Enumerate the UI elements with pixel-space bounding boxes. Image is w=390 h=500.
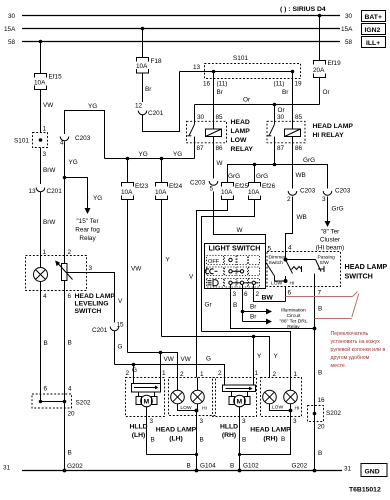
- svg-text:Переключатель: Переключатель: [331, 331, 369, 337]
- wire Br light switch pin6: [241, 289, 272, 325]
- wire C203-4 riser YG: [65, 103, 105, 159]
- wire WB C203-2 to head lamp switch pin4: [286, 197, 307, 244]
- svg-text:G: G: [132, 367, 137, 374]
- svg-text:(RH): (RH): [263, 436, 277, 443]
- wire VW Ef15 to S101 splice: [41, 90, 55, 133]
- svg-text:13: 13: [29, 188, 37, 195]
- svg-text:B: B: [200, 437, 204, 444]
- svg-text:G: G: [118, 344, 123, 351]
- svg-text:30: 30: [277, 114, 285, 121]
- svg-text:Or: Or: [243, 97, 251, 104]
- lamp RH low beam: [263, 390, 284, 410]
- svg-text:T6B15012: T6B15012: [349, 487, 381, 494]
- label diagram number T6B15012: [349, 487, 381, 494]
- svg-text:(11): (11): [217, 81, 228, 88]
- svg-text:( ) : SIRIUS D4: ( ) : SIRIUS D4: [280, 6, 326, 13]
- svg-text:HEAD LAMP: HEAD LAMP: [75, 293, 116, 300]
- svg-text:LIGHT SWITCH: LIGHT SWITCH: [209, 244, 261, 253]
- svg-text:B: B: [230, 463, 234, 470]
- red wire note line upper: [286, 292, 358, 297]
- wire BW light switch pin2 to head lamp switch pin6: [254, 289, 286, 302]
- svg-text:S202: S202: [326, 410, 341, 417]
- actuator HLLD LH: [132, 384, 161, 393]
- svg-text:другом удобном: другом удобном: [331, 355, 370, 361]
- wire B HLLD LH pin3: [147, 407, 199, 456]
- wire W C203-5 to head lamp switch pin5: [214, 192, 266, 244]
- svg-text:YG: YG: [139, 151, 148, 158]
- wire Br S101-19 to hi relay 85: [274, 72, 303, 117]
- svg-text:HEAD: HEAD: [231, 119, 250, 126]
- svg-text:VW: VW: [131, 266, 142, 273]
- svg-text:85: 85: [216, 114, 224, 121]
- svg-text:HLLD: HLLD: [220, 424, 238, 431]
- svg-text:3: 3: [200, 418, 204, 425]
- lamp RH hi beam: [284, 378, 300, 412]
- svg-text:G202: G202: [292, 463, 308, 470]
- node S202 splice right: [308, 397, 342, 431]
- svg-text:19: 19: [295, 81, 303, 88]
- svg-text:10A: 10A: [155, 189, 167, 196]
- svg-text:5: 5: [268, 246, 272, 253]
- node BAT+: [362, 11, 386, 22]
- svg-text:(11): (11): [274, 81, 285, 88]
- svg-text:3: 3: [293, 418, 297, 425]
- red wire note line lower: [315, 318, 352, 320]
- svg-text:Br: Br: [282, 89, 289, 96]
- node S101 splice box: [205, 55, 301, 79]
- wire W inside switch pin5: [266, 244, 286, 282]
- wire BrW to C201-13: [41, 148, 57, 185]
- svg-text:10A: 10A: [34, 80, 46, 87]
- connector C203 pin 2: [287, 188, 316, 204]
- svg-text:2: 2: [68, 249, 72, 256]
- svg-text:16: 16: [318, 397, 326, 404]
- node ILL+: [362, 37, 386, 48]
- svg-text:6: 6: [244, 291, 248, 298]
- svg-text:6: 6: [68, 293, 72, 300]
- lamp leveling illumination: [34, 256, 48, 291]
- junction S101 pin16: [212, 70, 216, 74]
- svg-text:5: 5: [210, 186, 214, 193]
- svg-text:G: G: [206, 356, 211, 363]
- connector C203 pin 3: [322, 188, 351, 204]
- svg-text:Gr: Gr: [205, 302, 213, 309]
- svg-text:M: M: [144, 399, 150, 406]
- svg-text:C203: C203: [335, 188, 351, 195]
- svg-text:"15" Ter: "15" Ter: [76, 218, 99, 225]
- svg-text:20: 20: [318, 424, 326, 431]
- svg-text:B: B: [68, 340, 72, 347]
- svg-text:1: 1: [294, 371, 298, 378]
- svg-text:Passing: Passing: [318, 255, 336, 261]
- svg-text:HEAD LAMP: HEAD LAMP: [156, 427, 197, 434]
- wire Y Ef24 down: [162, 200, 171, 337]
- ground G104: [187, 463, 217, 473]
- wire Br S101-16 to low relay 85: [203, 72, 227, 117]
- svg-text:B: B: [233, 302, 237, 309]
- svg-text:Or: Or: [278, 107, 286, 114]
- wire GrG C203-3 to cluster: [325, 197, 344, 228]
- wire Y rail to RH lamps: [162, 337, 279, 378]
- junction Y at HLLD RH: [252, 335, 256, 386]
- wire bus 30: [8, 13, 353, 20]
- svg-text:LOW: LOW: [231, 137, 247, 144]
- svg-text:G202: G202: [67, 463, 83, 470]
- svg-text:GND: GND: [365, 469, 380, 476]
- wire BrW C201-13 to leveling switch pin1: [41, 192, 57, 256]
- HLLD LH assembly box: [126, 378, 165, 417]
- svg-text:Br: Br: [250, 314, 257, 321]
- wire Or Ef19 down: [320, 78, 331, 105]
- fuse F18 10A: [136, 58, 162, 74]
- svg-text:GrG: GrG: [332, 206, 344, 213]
- svg-text:Br: Br: [217, 89, 224, 96]
- svg-text:C201: C201: [92, 327, 108, 334]
- svg-text:W: W: [217, 160, 224, 167]
- fuse Ef15 10A: [34, 74, 62, 90]
- fuse Ef26 10A: [248, 183, 276, 200]
- wire V Ef25 to LH hi beam: [189, 200, 228, 378]
- svg-text:58: 58: [8, 39, 16, 46]
- svg-text:6: 6: [288, 290, 292, 297]
- svg-text:31: 31: [344, 466, 352, 473]
- svg-text:BrW: BrW: [43, 167, 56, 174]
- svg-text:HI: HI: [295, 406, 300, 412]
- label head lamp LH: [156, 427, 197, 443]
- connector C201 pin 12: [135, 103, 164, 118]
- svg-text:B: B: [68, 450, 72, 457]
- svg-text:2: 2: [218, 370, 222, 377]
- svg-text:C203: C203: [300, 188, 316, 195]
- svg-text:1: 1: [162, 370, 166, 377]
- ground G202 left: [63, 463, 83, 472]
- light switch pin stubs: [231, 285, 260, 299]
- svg-text:Cluster: Cluster: [320, 237, 341, 244]
- svg-text:12: 12: [135, 103, 143, 110]
- HEAD LAMP LH assembly box: [169, 371, 216, 416]
- svg-text:10A: 10A: [221, 189, 233, 196]
- svg-text:87: 87: [197, 145, 205, 152]
- svg-text:S/W: S/W: [320, 260, 330, 266]
- svg-text:Y: Y: [257, 353, 262, 360]
- svg-text:GrG: GrG: [256, 173, 268, 180]
- label HLLD LH: [129, 424, 147, 440]
- svg-text:HI: HI: [290, 281, 295, 287]
- svg-text:3: 3: [233, 291, 237, 298]
- svg-text:S202: S202: [76, 400, 91, 407]
- label 15 ter rear fog relay: [75, 218, 100, 242]
- svg-text:6: 6: [44, 386, 48, 393]
- svg-text:YG: YG: [93, 195, 102, 202]
- svg-text:LOW: LOW: [271, 281, 283, 287]
- wire 15A to F18: [142, 29, 144, 58]
- node GND box: [361, 464, 387, 477]
- svg-text:Br: Br: [145, 86, 152, 93]
- svg-text:C203: C203: [75, 135, 91, 142]
- svg-text:C201: C201: [47, 188, 63, 195]
- svg-text:13: 13: [193, 64, 201, 71]
- svg-text:B: B: [151, 437, 155, 444]
- wire GrG rail: [228, 157, 328, 189]
- fuse Ef24 10A: [155, 183, 183, 200]
- connector C201 pin 13: [29, 188, 63, 196]
- wire W low relay 86 to C203-5: [214, 149, 224, 179]
- red note text russian: [331, 331, 386, 369]
- label head lamp RH: [250, 427, 291, 443]
- svg-text:10A: 10A: [248, 189, 260, 196]
- label head lamp switch: [345, 262, 388, 281]
- relay K1 head lamp low relay: [187, 105, 227, 159]
- wire Or feed to relays: [195, 97, 320, 105]
- svg-text:10A: 10A: [136, 63, 148, 70]
- junction B pin7 with pin3: [313, 327, 317, 331]
- svg-text:31: 31: [3, 465, 11, 472]
- wire B head lamp RH pin3: [238, 404, 297, 456]
- label head lamp leveling switch: [43, 293, 115, 315]
- wire YG rail to low relay 87: [105, 151, 195, 159]
- svg-text:1: 1: [43, 126, 47, 133]
- svg-text:87: 87: [277, 145, 285, 152]
- svg-text:HI RELAY: HI RELAY: [313, 132, 345, 139]
- svg-text:Ef23: Ef23: [135, 183, 149, 190]
- svg-text:HEAD LAMP: HEAD LAMP: [250, 427, 291, 434]
- svg-text:Ef24: Ef24: [169, 183, 183, 190]
- light switch row park: [205, 267, 259, 276]
- svg-text:30: 30: [197, 114, 205, 121]
- svg-text:Y: Y: [166, 257, 171, 264]
- svg-text:86: 86: [295, 145, 303, 152]
- wire bus 15A: [4, 26, 353, 33]
- node SIRIUS D4 note: [280, 6, 326, 13]
- svg-text:15A: 15A: [4, 26, 16, 33]
- svg-text:"86" Ter DRL: "86" Ter DRL: [279, 319, 307, 325]
- fuse Ef25 10A: [221, 183, 249, 200]
- svg-text:YG: YG: [88, 103, 97, 110]
- node S101 splice left: [14, 126, 48, 159]
- wire bus 58: [8, 39, 353, 46]
- svg-text:G104: G104: [200, 463, 216, 470]
- svg-text:2: 2: [180, 371, 184, 378]
- connector C201 pin 15: [92, 322, 124, 335]
- svg-text:LAMP: LAMP: [231, 128, 251, 135]
- svg-text:RELAY: RELAY: [231, 146, 254, 153]
- svg-text:3: 3: [43, 151, 47, 158]
- wire YG C203-4 down to junction: [65, 142, 78, 256]
- junction on 15A bus: [141, 27, 145, 31]
- fuse Ef23 10A: [121, 183, 149, 200]
- lamp LH low beam: [171, 378, 192, 412]
- svg-text:B: B: [187, 463, 191, 470]
- svg-text:LEVELING: LEVELING: [75, 301, 109, 308]
- label head lamp low relay: [231, 119, 254, 153]
- svg-text:C203: C203: [190, 180, 206, 187]
- wire S101 pin13 net: [180, 64, 293, 72]
- label head lamp hi relay: [313, 123, 354, 139]
- svg-text:Circuit: Circuit: [287, 313, 301, 319]
- head lamp switch S3 dimmer passing box: [267, 252, 341, 287]
- svg-text:M: M: [237, 399, 243, 406]
- junction GrG at Ef26: [253, 163, 257, 182]
- svg-text:WB: WB: [297, 214, 307, 221]
- svg-text:GrG: GrG: [303, 157, 315, 164]
- wire B HLLD RH pin3: [240, 407, 247, 471]
- red switch blade: [352, 294, 359, 318]
- svg-text:B: B: [44, 340, 48, 347]
- junction on 30 bus: [318, 14, 322, 18]
- svg-text:Ef25: Ef25: [235, 183, 249, 190]
- svg-text:30: 30: [345, 13, 353, 20]
- wire leveling pin3 V: [67, 265, 123, 323]
- light switch S2 box: [205, 244, 266, 289]
- svg-text:установить на кожух: установить на кожух: [331, 339, 381, 345]
- svg-text:1: 1: [43, 249, 47, 256]
- wire head lamp switch pin6: [286, 287, 292, 302]
- passing switch contact: [286, 260, 325, 287]
- svg-text:Relay: Relay: [79, 235, 96, 242]
- junction YG at Ef24: [160, 157, 164, 182]
- svg-text:C201: C201: [148, 110, 164, 117]
- label 8 ter cluster hi beam: [316, 229, 344, 252]
- svg-text:HLLD: HLLD: [129, 424, 147, 431]
- svg-text:3: 3: [322, 196, 326, 203]
- svg-text:3: 3: [89, 265, 93, 272]
- svg-text:BrW: BrW: [43, 219, 56, 226]
- junction YG branch: [63, 176, 67, 180]
- svg-text:20A: 20A: [313, 67, 325, 74]
- wire VW Ef23 down: [128, 200, 143, 353]
- svg-text:1: 1: [200, 371, 204, 378]
- svg-text:VW: VW: [164, 356, 175, 363]
- svg-text:B: B: [318, 370, 322, 377]
- junction GrG at hi relay 87: [273, 163, 277, 167]
- svg-text:4: 4: [68, 386, 72, 393]
- svg-text:HEAD LAMP: HEAD LAMP: [345, 262, 388, 271]
- actuator HLLD RH: [223, 385, 256, 392]
- svg-text:B: B: [281, 436, 285, 443]
- svg-text:W: W: [237, 227, 244, 234]
- svg-text:B: B: [318, 306, 322, 313]
- HLLD RH assembly box: [213, 370, 259, 417]
- svg-text:"8" Ter: "8" Ter: [321, 229, 340, 236]
- junction G at HLLD LH: [126, 363, 138, 384]
- svg-text:F18: F18: [151, 58, 162, 65]
- svg-text:2: 2: [126, 370, 130, 377]
- node IGN2: [362, 24, 386, 35]
- svg-text:S101: S101: [233, 55, 248, 62]
- wire VW rail to LH lamps: [128, 353, 192, 378]
- lamp LH hi beam: [191, 378, 207, 412]
- wire B head lamp LH pin3: [178, 404, 204, 471]
- svg-text:WB: WB: [296, 172, 306, 179]
- svg-text:15: 15: [117, 322, 125, 329]
- svg-text:LOW: LOW: [272, 405, 284, 411]
- svg-text:V: V: [118, 298, 123, 305]
- svg-text:(HI beam): (HI beam): [316, 245, 344, 252]
- svg-text:V: V: [189, 274, 194, 281]
- wire B leveling pin6 down: [65, 291, 76, 471]
- motor M HLLD LH: [136, 392, 157, 407]
- svg-text:4: 4: [288, 245, 292, 252]
- junction Or at hi relay 30: [273, 103, 286, 114]
- svg-text:3: 3: [242, 418, 246, 425]
- svg-text:2: 2: [287, 196, 291, 203]
- svg-text:2: 2: [256, 291, 260, 298]
- svg-text:ILL+: ILL+: [366, 40, 380, 47]
- svg-text:SWITCH: SWITCH: [75, 308, 102, 315]
- svg-text:Illumination: Illumination: [281, 308, 306, 314]
- wire WB hi relay 86 to C203-2: [293, 149, 306, 189]
- svg-text:Relay: Relay: [287, 324, 300, 330]
- wire 58 to Ef15: [40, 42, 42, 74]
- svg-text:85: 85: [295, 114, 303, 121]
- light switch row head: [207, 279, 260, 288]
- dimmer switch contact: [271, 244, 302, 287]
- light switch row off: [207, 256, 260, 266]
- svg-text:VW: VW: [43, 102, 54, 109]
- svg-text:Switch: Switch: [269, 260, 284, 266]
- fuse Ef19 20A: [313, 60, 341, 78]
- motor M HLLD RH: [229, 392, 250, 407]
- svg-text:HEAD LAMP: HEAD LAMP: [313, 123, 354, 130]
- svg-text:(LH): (LH): [169, 436, 183, 443]
- svg-text:YG: YG: [173, 151, 182, 158]
- svg-text:IGN2: IGN2: [365, 27, 381, 34]
- svg-text:20: 20: [68, 411, 76, 418]
- svg-text:Rear fog: Rear fog: [75, 227, 100, 234]
- head lamp leveling switch S1: [26, 249, 87, 291]
- wire C201-12 to S101 pin13: [143, 72, 180, 132]
- svg-text:BW: BW: [262, 295, 274, 302]
- wire ground bus 31: [3, 465, 352, 473]
- svg-text:15A: 15A: [341, 26, 353, 33]
- svg-text:BAT+: BAT+: [365, 14, 382, 21]
- svg-text:B: B: [242, 437, 246, 444]
- svg-text:Y: Y: [274, 353, 279, 360]
- svg-text:Ef19: Ef19: [328, 60, 342, 67]
- svg-text:7: 7: [318, 290, 322, 297]
- svg-text:(RH): (RH): [222, 432, 236, 439]
- connector C203 pin 4: [60, 135, 91, 147]
- junction S101 pin19: [291, 70, 295, 74]
- svg-text:SWITCH: SWITCH: [345, 272, 373, 281]
- svg-text:30: 30: [8, 13, 16, 20]
- junction VW at HLLD LH: [159, 351, 166, 384]
- svg-text:4: 4: [43, 293, 47, 300]
- wire B light switch pin3: [231, 289, 315, 329]
- svg-text:3: 3: [150, 418, 154, 425]
- svg-text:B: B: [318, 450, 322, 457]
- wire G C201-15 down: [115, 331, 123, 365]
- wire B head lamp switch pin7: [315, 287, 323, 471]
- svg-text:S101: S101: [14, 138, 29, 145]
- svg-text:Or: Or: [323, 89, 331, 96]
- svg-text:(LH): (LH): [132, 432, 146, 439]
- svg-text:VW: VW: [181, 356, 192, 363]
- wire B leveling pin4 down: [41, 291, 48, 402]
- svg-text:10A: 10A: [121, 189, 133, 196]
- junction on 58 bus: [39, 40, 43, 44]
- svg-text:2: 2: [273, 371, 277, 378]
- svg-text:GrG: GrG: [228, 173, 240, 180]
- ground G202 right: [292, 463, 317, 473]
- svg-text:рулевой колонки или в: рулевой колонки или в: [331, 346, 386, 353]
- label illumination circuit DRL: [279, 308, 307, 331]
- svg-text:4: 4: [60, 140, 64, 147]
- rheostat leveling: [55, 256, 72, 291]
- svg-text:G102: G102: [243, 463, 259, 470]
- ground G102: [230, 463, 259, 473]
- svg-text:16: 16: [203, 81, 211, 88]
